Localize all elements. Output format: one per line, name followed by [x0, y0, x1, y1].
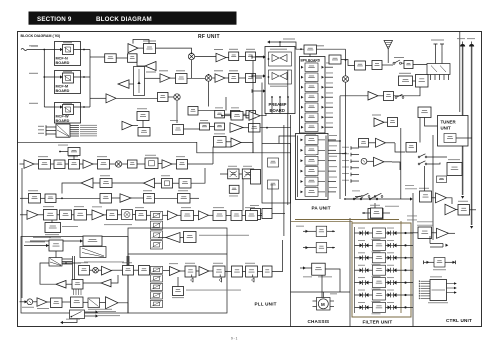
arrow mic in — [25, 300, 28, 303]
wire r3 c — [56, 197, 100, 199]
wire topbus down preamp — [279, 42, 281, 47]
wire right strip divider — [459, 32, 461, 113]
af filter b — [45, 194, 56, 203]
wire preamp pin 280 — [279, 97, 281, 114]
mixer MIX3 — [174, 94, 180, 100]
junction preamp1 — [268, 58, 270, 60]
junction frow7 — [404, 306, 406, 308]
wire mic c — [62, 301, 71, 303]
wire NB out — [116, 57, 127, 59]
wire af b — [447, 198, 453, 204]
wire sqb out — [260, 111, 266, 116]
wire pllb e — [150, 269, 151, 271]
mixer 2nd block — [176, 74, 188, 84]
wire mix3 a — [168, 96, 174, 98]
arrow cable1 — [461, 196, 464, 199]
wire pll vbus4 — [128, 256, 130, 266]
pin rt 6 — [350, 179, 352, 183]
wire rsw — [355, 196, 361, 198]
arrow MCF-W in — [60, 105, 63, 108]
ctrl IC left pins — [419, 280, 430, 299]
wire micr out — [384, 161, 392, 163]
mixer MIX4 — [115, 161, 121, 167]
if amp block — [188, 107, 198, 116]
wire pll vbus2 — [74, 256, 76, 280]
bpf cell 7 diodes — [301, 126, 304, 129]
wire J1 pin R2 — [70, 127, 79, 129]
svg-text:FILTER UNIT: FILTER UNIT — [363, 320, 393, 325]
wire frow3 d — [397, 257, 402, 259]
wire ma in — [424, 261, 434, 263]
wire relay pin 439.5 — [439, 75, 441, 81]
wire frow5 c — [386, 282, 388, 284]
wire row2 b — [170, 77, 176, 79]
thermal box — [316, 226, 327, 236]
wire filter feed — [295, 219, 399, 221]
noise blanker amp A1 — [128, 44, 138, 53]
ctrl IC right pins — [447, 282, 457, 294]
wire pllb l — [258, 271, 263, 273]
wire frow6 b — [369, 294, 373, 296]
wire bpf out 2 — [325, 76, 333, 78]
pll box d — [107, 210, 118, 220]
wire r4 d — [72, 214, 75, 216]
svg-text:SECTION 9: SECTION 9 — [37, 16, 72, 23]
wire pas right — [325, 269, 340, 292]
wire preamp in y57 — [252, 56, 265, 58]
junction frow3 — [404, 257, 406, 259]
wire pas down — [321, 275, 323, 297]
mic circle right — [361, 158, 367, 164]
wire dcout down2 — [441, 52, 443, 64]
bpf 1st IF — [229, 52, 239, 61]
relay filter L5 — [360, 280, 369, 285]
wire frow7 d — [397, 306, 402, 308]
wire pa rail R — [325, 136, 327, 198]
mic agc — [51, 298, 63, 308]
wire frow4 a — [355, 269, 360, 271]
af amp block — [420, 191, 432, 202]
wire xv4 — [252, 61, 254, 153]
wire r1 j — [158, 163, 162, 165]
pll label box — [184, 232, 197, 243]
crystal bank 1 — [151, 211, 163, 219]
pllb box g — [213, 266, 225, 277]
arrow vcxo — [80, 239, 83, 242]
wire xv1 — [242, 179, 244, 211]
wire frow6 c — [386, 294, 388, 296]
thermal box2 — [316, 243, 327, 253]
wire frow3 b — [369, 257, 373, 259]
schematic border frame — [18, 32, 482, 327]
wire rm 1 — [395, 143, 405, 152]
wire r1 k — [172, 163, 177, 165]
filter FL7 — [373, 302, 386, 312]
bpf cell 2 — [305, 73, 318, 82]
af out block — [458, 205, 470, 216]
junction th — [332, 230, 334, 232]
board MCF-N outline — [55, 42, 81, 66]
mid box e — [262, 209, 272, 219]
wire PLL right divider — [290, 115, 292, 327]
af filter a — [29, 194, 41, 204]
junction agcdet — [266, 127, 268, 129]
bpf cell 1 — [305, 63, 318, 72]
relay filter R6 — [388, 293, 397, 298]
wire rt 1 — [351, 147, 359, 149]
wire preamp in y91 — [252, 90, 265, 92]
wire sw out1 — [85, 311, 98, 313]
wire topbus down att — [309, 54, 311, 57]
wire r1 up — [213, 147, 231, 164]
arrow ref in — [46, 244, 49, 247]
wire ref in — [24, 245, 49, 247]
pll box h — [231, 211, 242, 221]
wire J1 pin L2 — [46, 130, 56, 132]
relay filter L6 — [360, 293, 369, 298]
wire pa out 4 — [328, 170, 336, 172]
wire r4 c — [57, 214, 60, 216]
wire r2 a — [93, 182, 100, 184]
filter top box — [368, 209, 383, 220]
wire tuner in — [425, 118, 438, 127]
pa stage 4 — [305, 167, 318, 176]
filter FL6 — [373, 290, 386, 300]
wire rt 6 — [351, 180, 359, 182]
svg-text:BOARD: BOARD — [56, 61, 70, 65]
wire vbus c6 — [424, 166, 426, 191]
bpf cell 1 diodes — [301, 66, 304, 69]
wire if2 — [198, 110, 215, 112]
wire frow5 d — [397, 282, 402, 284]
amp mic right — [374, 157, 385, 166]
wire NB amp out — [138, 47, 144, 49]
wire r3 e — [131, 197, 144, 199]
junction preamp pin 272 — [271, 96, 273, 98]
wire pa rail L — [297, 136, 299, 198]
noise blanker detector — [144, 44, 156, 54]
wire vbus c2 — [287, 70, 289, 205]
bpf cell 6 — [305, 113, 318, 122]
wire dds out 2 — [62, 261, 73, 263]
wire ant row a — [341, 60, 355, 66]
pll box i — [246, 211, 258, 221]
connector MIC jack — [469, 42, 474, 47]
wire pllb k — [243, 271, 246, 273]
unit FILTER outline — [352, 223, 411, 317]
wire rt 3 — [351, 160, 359, 162]
wire ctrl topL — [429, 236, 431, 244]
wire frow5 b — [369, 282, 373, 284]
agc block c — [215, 123, 225, 130]
wire amp3 out — [226, 57, 229, 59]
wire ftb — [374, 203, 376, 209]
wire vbus c5 — [419, 118, 421, 143]
swr sensor — [355, 61, 366, 70]
wire frow7 b — [369, 306, 373, 308]
wire filter rail L — [354, 227, 356, 313]
wire tx bus — [345, 49, 347, 76]
wire if1 link — [239, 56, 246, 58]
arrow ma in — [427, 261, 430, 264]
pin J1 L2 — [45, 129, 47, 133]
wire bpf out 6 — [325, 116, 333, 118]
pin preamp 76 — [251, 74, 253, 78]
wire pll vbus3 — [126, 256, 128, 266]
wire ma out — [445, 261, 455, 263]
relay filter R7 — [388, 305, 397, 310]
pa sensor — [312, 263, 326, 275]
ctrl switch 2 — [418, 161, 427, 165]
wire X in — [220, 173, 228, 175]
crystal bank 2 — [151, 266, 163, 273]
crystal filter FL-N — [63, 45, 74, 55]
wire afr a — [369, 142, 376, 144]
wire preamp pin 288 — [287, 97, 289, 114]
wire notch out — [226, 141, 231, 143]
wire AGC — [129, 83, 134, 85]
wire pllb h — [196, 270, 199, 272]
arrow pas — [303, 266, 306, 269]
wire NB feedback — [133, 40, 149, 44]
wire frow2 d — [397, 244, 402, 246]
wire chassis-filter divider — [349, 218, 351, 327]
wire th a — [303, 230, 316, 232]
dds IC hatched — [49, 258, 62, 267]
wire alc b — [378, 95, 384, 97]
wire r4 p — [258, 215, 263, 217]
wire RX input — [27, 49, 44, 51]
det block a — [215, 111, 225, 118]
wire bpf out 1 — [325, 66, 333, 68]
notch block — [214, 137, 227, 148]
wire frow1 c — [386, 232, 388, 234]
wire bpf out 3 — [325, 86, 333, 88]
filter FL2 — [373, 240, 386, 250]
junction th2 — [332, 247, 334, 249]
pa stage 1 pins — [301, 139, 304, 142]
filter top switches — [345, 196, 362, 200]
relay box antenna — [427, 64, 450, 75]
amp pll b — [92, 210, 104, 220]
meter amp box — [434, 258, 445, 268]
wire ref down — [55, 251, 57, 258]
wire r2 left — [62, 183, 81, 194]
dds sub block — [45, 223, 61, 233]
pin rt 4 — [350, 166, 352, 170]
squelch buf box — [231, 112, 243, 121]
pll ic — [72, 280, 83, 290]
if filter a — [39, 160, 51, 170]
junction frow2 — [404, 244, 406, 246]
pa stage 5 pins — [301, 180, 304, 183]
arrow MCF-M in — [60, 75, 63, 78]
amp af right — [376, 138, 386, 147]
connector J1 hatched block — [56, 124, 70, 137]
mid box b — [268, 158, 279, 167]
amp tx big — [106, 297, 119, 309]
wire frow4 out — [401, 269, 413, 271]
amp af B — [445, 204, 456, 215]
wire refl — [180, 237, 184, 239]
mid box a — [251, 170, 261, 185]
pin J1 L3 — [45, 132, 47, 136]
wire frow4 c — [386, 269, 388, 271]
wire bpf out 5 — [325, 106, 333, 108]
svg-text:9 - 1: 9 - 1 — [231, 337, 238, 341]
wire row2 f — [239, 77, 246, 79]
junction paf2 — [345, 152, 347, 154]
filter FL1 — [373, 228, 386, 238]
carrier box — [229, 185, 239, 193]
wire rm 2 — [392, 162, 400, 170]
beep board box — [447, 163, 462, 176]
pin rt 1 — [350, 146, 352, 150]
wire af d — [470, 209, 477, 211]
bpf cell 5 diodes — [301, 106, 304, 109]
pa stage 3 — [305, 156, 318, 165]
wire bus to buffer — [90, 97, 106, 99]
txrx switch in — [329, 55, 341, 64]
wire t44 in — [60, 151, 68, 153]
wire bpf out 7 — [325, 126, 333, 128]
board MCF-M outline — [55, 71, 81, 94]
arrow ftop — [410, 197, 413, 200]
ctrl box a — [406, 143, 417, 153]
wire notch link — [241, 143, 253, 153]
arrow MCF-N in — [60, 48, 63, 51]
wire filter-ctrl divider — [412, 193, 414, 327]
wire xv3 — [225, 97, 227, 111]
junction t44 — [59, 151, 61, 153]
pin rt 2 — [350, 153, 352, 157]
amp pll c — [168, 211, 178, 220]
wire mic a — [33, 301, 37, 303]
amp pllb B — [199, 267, 209, 276]
wire frow1 d — [397, 232, 402, 234]
wire J1 pin R5 — [70, 133, 79, 135]
wire mid link — [261, 213, 263, 215]
wire J1 pin L1 — [46, 126, 56, 128]
wire t44 down — [73, 156, 75, 160]
wire J1 pin R1 — [70, 125, 79, 127]
wire vbus c3 — [345, 120, 347, 196]
tx switch box — [70, 310, 85, 319]
relay filter R5 — [388, 280, 397, 285]
wire pllic a — [66, 283, 72, 285]
pa stage 3 pins — [301, 159, 304, 162]
relay filter R3 — [388, 255, 397, 260]
arrow sw down — [60, 321, 63, 324]
wire frow6 d — [397, 294, 402, 296]
vcxo box — [83, 236, 102, 246]
wire pllb f — [163, 270, 170, 272]
arrow preamp 91 — [263, 89, 266, 92]
wire r2 e — [191, 168, 205, 183]
wire agcdet out — [260, 127, 291, 129]
wire mid v1 — [279, 136, 296, 144]
agc det box — [249, 124, 261, 133]
wire pa mod link — [413, 80, 416, 82]
wire agcdet — [243, 127, 249, 129]
amp pll fb — [56, 281, 66, 289]
wire pllb out — [272, 240, 283, 272]
board BPF outline — [300, 57, 326, 134]
wire frow1 b — [369, 232, 373, 234]
wire X link — [239, 173, 242, 175]
junction sqb — [221, 115, 223, 117]
svg-text:BOARD: BOARD — [56, 119, 70, 123]
wire r2 c — [155, 182, 162, 184]
wire frow6 out — [401, 294, 413, 296]
relay filter L2 — [360, 243, 369, 248]
wire ctrl top2 — [430, 246, 443, 248]
amp sql ctrl — [437, 228, 449, 238]
right switch a — [361, 193, 370, 197]
junction ftop — [344, 198, 346, 200]
amp agc out — [230, 123, 243, 133]
wire r3 d — [112, 197, 121, 199]
wire r4 g — [118, 214, 122, 216]
wire mic in — [20, 301, 27, 303]
alc det — [384, 92, 394, 101]
wire rm vbus1 — [400, 128, 402, 199]
preamp sub amp 2 — [269, 70, 292, 84]
wire r1 e — [80, 163, 84, 165]
wire pa out 2 — [328, 149, 336, 151]
wire r3 b — [41, 197, 46, 199]
arrow preamp 76 — [263, 74, 266, 77]
bpf cell 5 — [305, 103, 318, 112]
cable SP — [462, 47, 464, 196]
wire r3 g — [190, 197, 199, 199]
input RX antenna squiggle — [21, 49, 27, 51]
wire sqb — [243, 115, 249, 117]
wire rt 2 — [351, 154, 359, 156]
wire preamp in y76 — [252, 75, 265, 77]
amp alc — [368, 92, 378, 101]
board PREAMP outline — [265, 47, 295, 114]
wire sqb in — [222, 115, 231, 117]
mixer MIX2 — [205, 75, 211, 81]
pin rt 3 — [350, 159, 352, 163]
wire vbus c4 — [339, 96, 341, 199]
mid if box b — [138, 128, 150, 137]
wire mix1 out — [195, 56, 216, 58]
pa stage 2 pins — [301, 149, 304, 152]
pin ma out — [455, 261, 457, 265]
amp squelch — [249, 111, 260, 120]
wire row2 d — [212, 77, 215, 79]
junction dds — [65, 262, 67, 264]
wire vcxo in — [30, 240, 83, 242]
pllb box j — [263, 266, 273, 277]
svg-text:UNIT: UNIT — [441, 126, 452, 131]
svg-text:CHASSIS: CHASSIS — [308, 319, 330, 324]
wire J1 pin R4 — [70, 131, 79, 133]
wire pas a — [300, 267, 312, 269]
wire dds out 3 — [62, 263, 73, 265]
wire af c — [456, 209, 458, 211]
sub-board PLL right outline — [128, 228, 227, 313]
wire r1 i — [137, 163, 145, 165]
wire pllbox down — [158, 237, 166, 239]
amp if4 A7 — [83, 160, 93, 169]
pll ic pins — [73, 289, 75, 295]
wire r1 c — [51, 163, 55, 165]
wire det out — [156, 48, 192, 53]
junction afg — [363, 212, 365, 214]
